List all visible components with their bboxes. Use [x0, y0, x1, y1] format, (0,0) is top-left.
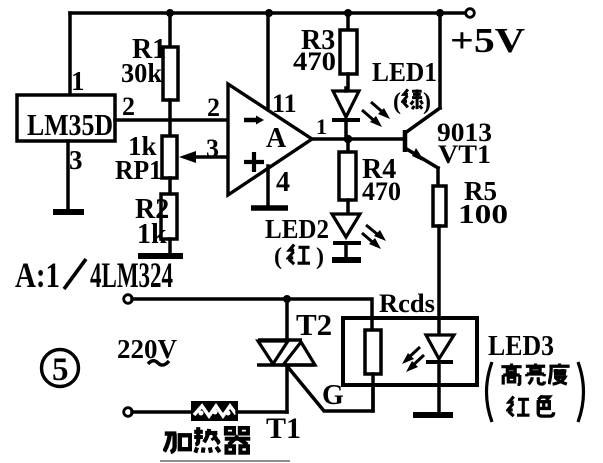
terminal AC bottom	[124, 408, 133, 417]
wire LM35D pin1	[68, 13, 72, 95]
svg-text:2: 2	[207, 93, 220, 122]
label LED3 note (high brightness red)	[487, 362, 584, 422]
svg-text:): )	[316, 244, 324, 270]
optocoupler box	[343, 318, 477, 385]
wire heater to triac T1	[237, 410, 287, 414]
svg-text:T2: T2	[296, 307, 332, 342]
ground R2	[138, 253, 183, 259]
svg-text:VT1: VT1	[438, 140, 491, 169]
wire RP1 wiper arrow	[179, 151, 228, 163]
wire RP1 to R2	[168, 178, 172, 194]
svg-text:4LM324: 4LM324	[90, 255, 173, 295]
wire top +5V rail	[70, 11, 466, 15]
label A:1/4LM324	[15, 255, 174, 295]
wire op-amp pin11 to rail	[266, 13, 270, 108]
LED LED1	[332, 88, 360, 139]
transistor Q1 9013 VT1	[405, 108, 440, 168]
scan artifact line	[160, 460, 290, 462]
svg-text:LM35D: LM35D	[27, 107, 113, 142]
terminal AC top	[124, 295, 133, 304]
wire R3 top lead	[346, 13, 350, 30]
svg-text:(: (	[393, 89, 401, 115]
svg-text:1: 1	[71, 66, 85, 96]
resistor R3	[340, 30, 357, 74]
svg-text:+5V: +5V	[450, 21, 525, 60]
svg-text:3: 3	[206, 134, 219, 163]
svg-text:470: 470	[293, 47, 336, 76]
terminal +5V	[466, 9, 475, 18]
svg-text:LED3: LED3	[488, 331, 554, 362]
svg-text:Rcds: Rcds	[379, 289, 435, 318]
svg-text:2: 2	[122, 92, 135, 121]
label AC tilde	[148, 361, 169, 365]
triac T2	[257, 299, 315, 412]
node junction dot output	[344, 135, 353, 144]
svg-text:220V: 220V	[117, 334, 178, 364]
LED3 emission arrows toward Rcds	[402, 347, 424, 372]
wire R1 to RP1	[168, 100, 172, 136]
wire R2 bottom lead	[168, 239, 172, 254]
label heater (jia re qi)	[164, 427, 250, 453]
resistor R5	[433, 186, 446, 226]
svg-text:1k: 1k	[137, 219, 167, 250]
svg-text:LED2: LED2	[265, 214, 329, 244]
svg-text:T1: T1	[266, 412, 301, 445]
svg-text:(: (	[274, 244, 282, 270]
wire emitter to R5	[436, 168, 440, 186]
wire LM35D pin2 to op-amp	[115, 118, 228, 122]
wire collector to rail	[438, 13, 442, 108]
svg-text:3: 3	[69, 145, 83, 175]
wire node to R4	[346, 139, 350, 152]
ground LED2	[332, 257, 361, 263]
resistor R1	[163, 47, 178, 100]
svg-text:30k: 30k	[121, 58, 162, 88]
svg-text:RP1: RP1	[115, 155, 162, 185]
ground LED3	[413, 412, 453, 418]
node junction dot op-amp pin11 top	[265, 9, 273, 17]
IC LM35D	[17, 95, 115, 142]
svg-text:11: 11	[272, 89, 297, 118]
photoresistor Rcds	[365, 330, 381, 374]
resistor R2	[161, 194, 177, 239]
svg-text:LED1: LED1	[372, 57, 437, 87]
wire R3 to LED1	[346, 74, 350, 91]
label LED1 colour (green)	[393, 89, 431, 115]
svg-text:470: 470	[362, 177, 401, 206]
svg-text:4: 4	[276, 167, 290, 198]
svg-text:5: 5	[52, 352, 69, 388]
wire AC bottom to heater	[132, 410, 192, 414]
svg-text:A: A	[266, 123, 287, 154]
wire triac gate	[287, 366, 373, 411]
svg-text:A:1: A:1	[15, 255, 60, 295]
LED1 emission arrows	[362, 102, 390, 127]
ground op-amp	[251, 205, 288, 211]
wire LM35D pin3	[66, 141, 70, 210]
wire R1 top lead	[168, 13, 172, 47]
svg-text:1: 1	[316, 114, 327, 139]
node junction dot collector top	[436, 9, 444, 17]
svg-text:G: G	[322, 380, 344, 411]
wire op-amp output node	[312, 137, 403, 141]
node junction dot R1 top	[166, 9, 174, 17]
ground LM35D	[53, 209, 84, 215]
wire op-amp pin4 down	[266, 166, 270, 206]
wire Rcds bottom lead	[371, 374, 375, 411]
label LED2 colour (red)	[274, 244, 324, 270]
potentiometer RP1	[162, 136, 177, 178]
wire R4 to LED2	[346, 200, 350, 214]
LED LED3	[426, 335, 454, 412]
heater element	[192, 402, 237, 420]
wire R5 to LED3	[437, 226, 441, 335]
op-amp U1 A	[228, 84, 312, 195]
figure number 5	[42, 350, 79, 389]
node junction dot triac top	[283, 295, 291, 303]
LED LED2	[332, 214, 361, 257]
svg-text:): )	[423, 89, 431, 115]
wire AC top	[132, 299, 372, 330]
resistor R4	[339, 152, 356, 200]
svg-text:100: 100	[458, 199, 508, 229]
node junction dot R3 top	[344, 9, 352, 17]
LED2 emission arrows	[362, 225, 386, 249]
